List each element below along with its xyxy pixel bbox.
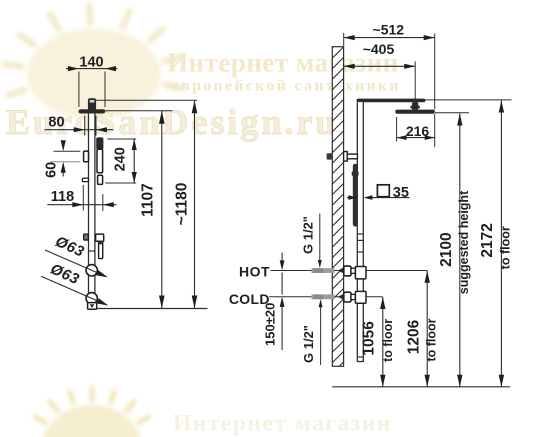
svg-text:1056: 1056 [361,321,378,356]
hot column block [355,267,366,279]
dim 1107 line and arrows [159,111,165,309]
wall section with hatching [332,47,343,367]
watermark big text EuroSanDesign.ru [6,102,338,142]
G 1/2 bottom leader [319,299,323,365]
dim ~405 text [363,41,395,57]
svg-text:2100: 2100 [438,232,455,266]
dim ~405 extension line (head centre) [414,62,416,103]
hot escutcheon cone [338,267,344,274]
dim 1056 line and arrows [380,297,385,387]
dim 80 text [48,115,64,131]
dim 2172 to floor text [499,226,513,269]
watermark text row 2 [172,78,401,95]
dim 1056 to floor text [381,319,395,362]
svg-text:150±20: 150±20 [263,303,278,346]
dim 216 extension lines [397,114,435,147]
svg-text:~1180: ~1180 [173,183,190,226]
hand shower lower segment (side view) [98,175,103,184]
HOT label [239,263,270,279]
rail slider [352,171,359,175]
shower head disc (front view) [395,110,435,114]
svg-text:1107: 1107 [140,183,157,217]
svg-text:35: 35 [393,185,409,201]
dim ~1180 line and arrows [192,100,198,308]
floor line (side view) [98,308,208,310]
dim ~512 extension line right [434,34,436,110]
svg-text:118: 118 [51,189,74,205]
svg-text:2172: 2172 [479,223,496,257]
hot valve body [344,266,351,276]
svg-text:G 1/2": G 1/2" [300,216,315,254]
dim 140 line and arrows [66,66,118,71]
leader line upper Ø63 [45,250,108,277]
dim 60 text [44,162,60,178]
watermark bottom text [173,411,392,437]
dim 240 line and arrows [132,139,137,183]
top reference line to 2172 [425,99,511,101]
dim 1107 text [140,183,157,217]
COLD reference line [269,296,383,298]
label Ø63 lower [48,261,82,289]
dim ~405 line and arrows [344,64,416,69]
dim 150±20 line and arrows [280,253,285,351]
dim 2100 text [438,232,455,266]
dim 1206 text [406,319,423,354]
pivot circle lower [86,293,97,304]
svg-text:G 1/2": G 1/2" [301,325,316,363]
svg-text:to floor: to floor [499,226,513,269]
watermark sun bottom-left [35,388,149,437]
G 1/2 bottom text [301,325,316,363]
callout 35 text [393,185,409,201]
svg-text:to floor: to floor [381,319,395,362]
pivot circle upper [86,265,97,276]
floor line (front view) [332,386,510,388]
rail knob (side view) [84,234,89,240]
watermark sun top-left [5,6,182,120]
dim 216 line and arrows [397,135,435,140]
shower column (front view) [357,102,363,361]
riser pipe (side view) [89,114,95,304]
dim 240 extension lines [105,139,136,183]
shower head neck (side view) [88,98,96,110]
leader line lower Ø63 [41,276,109,305]
left view: reference line at head disc (1107 level) [105,110,172,112]
column bottom cap [357,357,364,362]
pipe bottom outlet [88,303,97,310]
dim ~512 text [373,21,405,37]
dim 2172 text [479,223,496,257]
wall bracket (side view) [84,151,89,162]
hand shower body (side view) [97,149,103,172]
svg-text:140: 140 [79,54,103,70]
wall bracket screw [327,153,333,159]
HOT reference line [271,270,428,272]
dim ~1180 text [173,183,190,226]
dim 1206 line and arrows [425,271,430,387]
dim 118 extension lines [83,185,103,211]
hand shower handle hanging [99,241,103,258]
G 1/2 top leader [318,214,322,269]
dim 1056 text [361,321,378,356]
dim 118 line and arrows [47,202,116,207]
svg-text:80: 80 [48,115,64,131]
G 1/2 top text [300,216,315,254]
svg-text:1206: 1206 [406,319,423,354]
svg-text:suggested height: suggested height [457,190,471,294]
svg-text:Интернет магазин: Интернет магазин [173,411,392,437]
hot supply pipe in wall [312,268,335,273]
dim 150±20 text [263,303,278,346]
reference line head to 2100 [435,112,469,114]
svg-text:европейской сантехники: европейской сантехники [172,78,401,95]
hand shower head (side view) [96,137,103,149]
shower arm [357,99,426,103]
cold column block [355,291,366,303]
svg-text:60: 60 [44,162,60,178]
dim 118 text [51,189,74,205]
head ball connector [410,102,419,109]
dim 1206 to floor text [424,318,438,361]
svg-text:~405: ~405 [363,41,395,57]
dim 2100 line and arrows [457,114,462,387]
dim 2172 line and arrows [499,101,504,387]
cold valve body [344,292,351,302]
COLD label [229,291,270,307]
wall bracket plate and shaft [344,152,358,162]
callout □35 leader and arrows [347,195,410,200]
label Ø63 upper [53,233,87,261]
watermark text row 1 [167,48,399,78]
cold escutcheon cone [338,294,344,301]
hand shower rail (front view) [353,164,358,227]
dim 2100 suggested height text [457,190,471,294]
dim 80 extension lines [85,116,96,136]
cold supply pipe in wall [312,294,335,299]
dim 140 extension lines [79,72,105,108]
dim ~512 extension line at wall [343,33,345,46]
dim 216 text [406,123,430,139]
svg-text:HOT: HOT [239,263,270,279]
callout □35 square symbol [377,185,389,197]
dim 60 line and arrows [61,140,66,176]
dim 80 line and arrows [44,127,113,132]
dim 60 extension lines [51,151,81,162]
svg-text:240: 240 [112,147,128,171]
svg-text:to floor: to floor [424,318,438,361]
cold valve stem [351,294,355,299]
column joint lines [357,234,363,252]
hot valve stem [351,268,355,273]
dim 140 text [79,54,103,70]
shower head disc (side view) [79,109,106,113]
dim ~512 line and arrows [344,35,435,40]
hand shower holder arm [96,234,104,241]
svg-text:~512: ~512 [373,21,405,37]
small stub on pipe [82,178,88,182]
pipe joint line [89,250,95,252]
dim 240 text [112,147,128,171]
left view: top reference line at head top [96,99,197,101]
